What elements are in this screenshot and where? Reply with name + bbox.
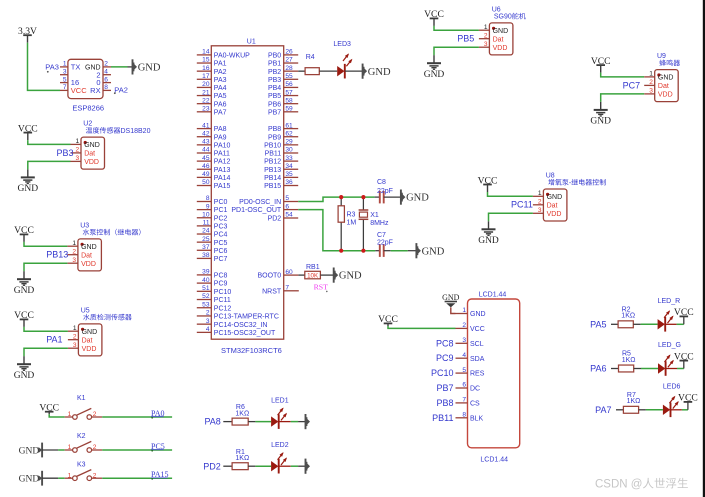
wire U3 pin 3 to GND (24, 263, 67, 271)
wire VCC to U3 pin 1 (24, 242, 67, 246)
net label PC7 (623, 80, 641, 90)
U1 left pins group 3 (PC0..PC7) (197, 195, 228, 263)
wire R2 to LED_R (633, 323, 657, 325)
svg-text:61: 61 (285, 122, 293, 129)
svg-text:SCL: SCL (470, 341, 484, 348)
svg-text:PB1: PB1 (268, 61, 281, 68)
wire PA5 to R2 (611, 323, 618, 325)
power flag VCC for U6 (424, 9, 444, 26)
svg-text:3: 3 (484, 41, 488, 48)
capacitor C8 22pF (375, 179, 401, 203)
svg-text:SG90: SG90 (494, 14, 512, 21)
net label PA2 at ESP8266 pin 8 (114, 86, 128, 95)
key K1 (65, 395, 103, 419)
svg-text:56: 56 (285, 81, 293, 88)
svg-text:LED1: LED1 (271, 397, 289, 404)
svg-text:59: 59 (285, 106, 293, 113)
net label PA3 at ESP8266 pin 1 (45, 62, 59, 72)
resistor R3 1M (338, 197, 356, 251)
svg-text:PB9: PB9 (268, 134, 281, 141)
svg-text:PA1: PA1 (214, 61, 227, 68)
svg-text:PC4: PC4 (214, 232, 228, 239)
svg-text:LED2: LED2 (271, 442, 289, 449)
wire LED6 to VCC (671, 402, 688, 410)
capacitor C7 22pF (375, 232, 416, 257)
svg-text:PB13: PB13 (264, 167, 281, 174)
svg-text:22pF: 22pF (377, 240, 393, 247)
ground at LED2 (306, 459, 311, 474)
svg-text:1: 1 (68, 411, 72, 418)
svg-text:3: 3 (72, 257, 76, 264)
wire VCC to K1 pin 1 (49, 414, 64, 417)
svg-text:11: 11 (203, 220, 210, 227)
svg-text:PC0: PC0 (214, 199, 228, 206)
svg-text:58: 58 (285, 97, 293, 104)
svg-text:PA3: PA3 (214, 77, 227, 84)
svg-text:PA12: PA12 (214, 159, 231, 166)
svg-text:51: 51 (202, 285, 210, 292)
svg-text:46: 46 (202, 163, 210, 170)
svg-text:U1: U1 (247, 39, 256, 46)
svg-text:PB8: PB8 (268, 126, 281, 133)
module U3 水泵控制（继电器） (67, 222, 140, 271)
U1 right pins group 1 (PB0..PB7) (268, 49, 298, 117)
resistor R4 (305, 54, 319, 75)
svg-text:Dat: Dat (81, 252, 92, 259)
svg-text:60: 60 (285, 269, 293, 276)
svg-text:7: 7 (462, 397, 466, 404)
svg-text:PB3: PB3 (268, 77, 281, 84)
wire VCC to LCD pin 2 (388, 326, 456, 328)
power flag VCC for U9 (591, 56, 611, 73)
svg-text:3: 3 (649, 88, 653, 95)
ground GND below U8 (478, 221, 499, 246)
ground GND at RB1 (334, 268, 362, 283)
net label RST at NRST (314, 283, 329, 293)
svg-text:PA5: PA5 (590, 319, 606, 329)
wire BOOT0 to RB1 (298, 274, 304, 276)
svg-text:PC13-TAMPER-RTC: PC13-TAMPER-RTC (214, 314, 279, 321)
svg-text:GND: GND (470, 311, 486, 318)
svg-text:PB12: PB12 (264, 159, 281, 166)
svg-text:16: 16 (202, 65, 210, 72)
module U9 蜂鸣器 (644, 53, 680, 102)
svg-text:PC11: PC11 (214, 297, 231, 304)
MCU U1 STM32F103RCT6 body (211, 39, 283, 355)
svg-text:GND: GND (138, 63, 161, 74)
svg-text:GND: GND (547, 194, 563, 201)
LED LED1 (271, 397, 289, 429)
svg-text:PA7: PA7 (595, 405, 611, 415)
svg-text:40: 40 (202, 277, 210, 284)
svg-text:VDD: VDD (658, 92, 673, 99)
svg-text:3: 3 (63, 69, 67, 76)
power flag VCC for U5 (14, 310, 34, 327)
svg-text:1: 1 (68, 444, 72, 451)
net label PC5 (151, 442, 165, 452)
U1 pin 7 NRST (262, 285, 299, 296)
ground GND at ESP8266 pin 2 (133, 59, 161, 74)
ground GND at C8 (401, 190, 429, 205)
svg-text:PB15: PB15 (264, 183, 281, 190)
svg-text:9: 9 (206, 203, 210, 210)
svg-text:5: 5 (285, 195, 289, 202)
svg-text:49: 49 (202, 171, 210, 178)
svg-text:PA10: PA10 (214, 142, 231, 149)
U1 left pins group 1 (PA0-WKUP..PA7) (197, 49, 250, 117)
svg-text:2: 2 (649, 79, 653, 86)
svg-text:K3: K3 (77, 462, 86, 469)
svg-text:-: - (569, 180, 572, 187)
svg-text:57: 57 (285, 89, 293, 96)
power flag VCC at LED_R (674, 307, 694, 318)
wire 3.3V to ESP8266 pin 7 (28, 43, 61, 91)
svg-text:PB2: PB2 (268, 69, 281, 76)
wire R6 to LED1 (248, 421, 271, 423)
svg-text:PC15-OSC32_OUT: PC15-OSC32_OUT (214, 330, 276, 337)
svg-text:VCC: VCC (470, 326, 485, 333)
svg-text:6: 6 (285, 203, 289, 210)
svg-text:PB13: PB13 (46, 250, 68, 260)
power flag VCC at LED6 (678, 393, 698, 404)
svg-text:1: 1 (76, 138, 80, 145)
crystal X1 8MHz (359, 197, 389, 251)
svg-text:1: 1 (63, 61, 67, 68)
svg-text:PC7: PC7 (623, 80, 641, 90)
svg-text:BOOT0: BOOT0 (257, 273, 281, 280)
wire VCC to U6 pin 1 (434, 26, 479, 30)
wire U8 pin 3 to GND (489, 213, 533, 221)
svg-text:Dat: Dat (547, 202, 558, 209)
svg-text:C7: C7 (377, 232, 386, 239)
svg-text:4: 4 (104, 69, 108, 76)
svg-text:30: 30 (285, 147, 293, 154)
svg-text:2: 2 (93, 444, 97, 451)
ground GND below U5 (14, 356, 35, 381)
svg-text:GND: GND (368, 67, 391, 78)
svg-text:2: 2 (76, 147, 80, 154)
svg-text:PB14: PB14 (264, 175, 281, 182)
wire U9 pin 3 to GND (601, 94, 645, 102)
svg-text:PA9: PA9 (214, 134, 227, 141)
svg-text:SDA: SDA (470, 356, 485, 363)
svg-text:K2: K2 (77, 433, 86, 440)
svg-text:41: 41 (202, 122, 210, 129)
svg-text:PC12: PC12 (214, 305, 232, 312)
ground GND below U6 (424, 55, 445, 80)
resistor R1 1K (232, 449, 249, 470)
net label PB3 (57, 148, 74, 158)
svg-text:X1: X1 (370, 212, 379, 219)
svg-text:LED6: LED6 (663, 383, 681, 390)
svg-text:PA6: PA6 (214, 101, 227, 108)
svg-text:PA6: PA6 (590, 364, 606, 374)
power flag VCC for U2 (18, 123, 38, 140)
ground GND at LCD pin 1 (442, 293, 460, 307)
svg-text:GND: GND (658, 75, 674, 82)
watermark CSDN (595, 478, 688, 491)
module U6 SG90舵机 (479, 6, 526, 55)
svg-text:RB1: RB1 (306, 264, 320, 271)
svg-text:VDD: VDD (547, 211, 562, 218)
wire LED_R to VCC (665, 317, 684, 325)
resistor RB1 10K (305, 264, 321, 280)
wire U6 pin 3 to GND (434, 47, 479, 55)
svg-text:GND: GND (406, 193, 429, 204)
svg-text:PD1-OSC_OUT: PD1-OSC_OUT (231, 207, 282, 214)
net label PB7 at LCD pin 6 (436, 383, 453, 393)
svg-text:52: 52 (202, 293, 210, 300)
wire VCC to U9 pin 1 (601, 73, 645, 77)
svg-text:PC10: PC10 (214, 289, 232, 296)
svg-text:GND: GND (84, 142, 100, 149)
svg-text:PA14: PA14 (214, 175, 231, 182)
module U2 温度传感器DS18B20 (71, 121, 151, 170)
module U5 水质检测传感器 (68, 307, 132, 356)
svg-text:PC11: PC11 (511, 200, 533, 210)
ground GND below U3 (14, 271, 35, 296)
wire PD0-OSC_IN to crystal top rail (298, 197, 374, 201)
key K2 (65, 433, 103, 452)
svg-text:C8: C8 (377, 179, 386, 186)
power flag VCC at LED_G (674, 351, 694, 362)
svg-text:PA4: PA4 (214, 85, 227, 92)
net label PA7 (595, 405, 611, 415)
svg-text:CSDN @: CSDN @ (595, 479, 642, 491)
svg-text:PC8: PC8 (214, 273, 228, 280)
svg-text:Dat: Dat (82, 337, 93, 344)
ground GND below U9 (590, 102, 611, 127)
svg-text:PA3: PA3 (45, 62, 59, 71)
wire RB1 to GND (320, 274, 333, 276)
resistor R6 1K (232, 404, 249, 425)
svg-text:PB10: PB10 (264, 142, 281, 149)
svg-text:PB7: PB7 (268, 109, 281, 116)
svg-text:1KΩ: 1KΩ (627, 398, 641, 405)
svg-text:Dat: Dat (84, 151, 95, 158)
svg-text:33: 33 (285, 155, 293, 162)
power flag VCC for U3 (14, 225, 34, 242)
U1 right pins PD0-OSC_IN / PD1-OSC_OUT / PD2 (231, 195, 298, 222)
svg-text:GND: GND (590, 117, 611, 127)
wire GND to K2 pin 1 (42, 449, 65, 451)
resistor R5 1K (619, 351, 636, 372)
wire PA8 to R6 (223, 421, 232, 423)
svg-text:1KΩ: 1KΩ (235, 455, 249, 462)
svg-text:PC8: PC8 (436, 338, 454, 348)
svg-text:PA7: PA7 (214, 109, 227, 116)
svg-text:R3: R3 (347, 212, 356, 219)
svg-text:PD2: PD2 (268, 216, 282, 223)
svg-text:PA0-WKUP: PA0-WKUP (214, 53, 250, 60)
wire VCC to U2 pin 1 (28, 140, 71, 144)
svg-text:1: 1 (462, 307, 466, 314)
svg-text:3: 3 (462, 337, 466, 344)
svg-text:8: 8 (206, 195, 210, 202)
LED LED_R (658, 298, 681, 332)
svg-text:45: 45 (202, 155, 210, 162)
svg-text:38: 38 (202, 252, 210, 259)
svg-text:PC10: PC10 (431, 368, 454, 378)
svg-text:50: 50 (202, 179, 210, 186)
net label PB11 at LCD pin 8 (432, 413, 453, 423)
svg-text:2: 2 (104, 61, 108, 68)
power flag VCC at LCD pin 2 (378, 314, 398, 326)
net label PD2 (203, 461, 221, 471)
wire LED_G to VCC (666, 361, 684, 369)
ground GND below U2 (18, 169, 39, 194)
svg-text:PB5: PB5 (457, 34, 474, 44)
svg-text:GND: GND (422, 246, 445, 257)
U1 left pins group 2 (PA8..PA15) (197, 122, 231, 190)
svg-text:STM32F103RCT6: STM32F103RCT6 (221, 346, 282, 355)
svg-text:35: 35 (285, 171, 293, 178)
key K3 (65, 462, 103, 481)
svg-text:PB4: PB4 (268, 85, 281, 92)
svg-text:26: 26 (285, 49, 293, 56)
resistor R7 1K (623, 392, 640, 413)
net label PC9 at LCD pin 4 (436, 353, 454, 363)
sheet right border (703, 0, 705, 497)
svg-text:PB7: PB7 (436, 383, 453, 393)
svg-text:U5: U5 (81, 307, 90, 314)
wire K1 pin 2 to PA0 (102, 416, 172, 418)
U1 left pins group 4 (PC8..PC15-OSC32_OUT) (197, 269, 279, 337)
net label PA1 (46, 335, 62, 345)
wire PD2 to R1 (223, 465, 232, 467)
LED LED6 (663, 383, 681, 417)
LED3 (333, 41, 352, 79)
module U8 增氧泵-继电器控制 (533, 172, 606, 221)
svg-text:8MHz: 8MHz (370, 220, 389, 227)
svg-text:PA13: PA13 (214, 167, 231, 174)
svg-text:2: 2 (206, 310, 210, 317)
svg-text:1M: 1M (347, 219, 357, 226)
ground GND at C7 (416, 243, 444, 258)
svg-text:GND: GND (19, 475, 40, 485)
svg-text:PC3: PC3 (214, 223, 228, 230)
svg-text:RX: RX (90, 86, 100, 95)
svg-text:PC6: PC6 (214, 248, 228, 255)
svg-text:VDD: VDD (493, 45, 508, 52)
svg-text:R4: R4 (306, 54, 315, 61)
svg-text:2: 2 (93, 472, 97, 479)
svg-text:VDD: VDD (81, 261, 96, 268)
svg-text:PB5: PB5 (268, 93, 281, 100)
svg-text:PC5: PC5 (214, 240, 228, 247)
svg-text:LCD1.44: LCD1.44 (480, 457, 508, 464)
svg-text:PA1: PA1 (46, 335, 62, 345)
svg-text:PC2: PC2 (214, 215, 228, 222)
svg-text:43: 43 (202, 139, 210, 146)
svg-text:24: 24 (202, 228, 210, 235)
svg-text:5: 5 (462, 367, 466, 374)
svg-text:2: 2 (484, 33, 488, 40)
wire ESP8266 pin 2 to GND (111, 66, 133, 68)
svg-text:22pF: 22pF (377, 188, 393, 195)
ground GND at K2 (19, 443, 43, 458)
svg-text:GND: GND (81, 244, 97, 251)
svg-text:BLK: BLK (470, 415, 484, 422)
net label PC8 at LCD pin 3 (436, 338, 454, 348)
net label PC10 at LCD pin 5 (431, 368, 454, 378)
net label PB8 at LCD pin 7 (436, 398, 453, 408)
ground GND at K3 (19, 471, 43, 486)
svg-text:U6: U6 (492, 6, 501, 13)
svg-text:21: 21 (202, 89, 210, 96)
svg-text:29: 29 (285, 139, 293, 146)
LED LED2 (271, 442, 289, 474)
svg-text:8: 8 (104, 84, 108, 91)
wire VCC to U8 pin 1 (488, 192, 533, 196)
power flag VCC for U8 (478, 175, 498, 192)
svg-text:3: 3 (76, 155, 80, 162)
svg-text:PA8: PA8 (204, 417, 220, 427)
U1 pin 60 BOOT0 (257, 269, 298, 280)
wire PD1-OSC_OUT to crystal bottom rail (298, 210, 375, 251)
wire R5 to LED_G (634, 368, 658, 370)
svg-text:PB11: PB11 (432, 413, 453, 423)
svg-text:PB3: PB3 (57, 148, 74, 158)
svg-text:PD2: PD2 (203, 461, 221, 471)
svg-text:2: 2 (462, 322, 466, 329)
wire PA7 to R7 (616, 409, 623, 411)
svg-text:62: 62 (285, 130, 293, 137)
svg-text:U9: U9 (657, 53, 666, 60)
svg-text:6: 6 (104, 76, 108, 83)
svg-text:PC9: PC9 (436, 353, 454, 363)
svg-text:15: 15 (202, 57, 210, 64)
svg-text:54: 54 (285, 212, 293, 219)
wire GND to K3 pin 1 (42, 477, 65, 479)
wire PB2 to R4 (298, 70, 305, 72)
svg-text:K1: K1 (77, 395, 86, 402)
svg-text:1KΩ: 1KΩ (235, 410, 249, 417)
svg-text:55: 55 (285, 73, 293, 80)
svg-text:27: 27 (285, 57, 293, 64)
wire U2 pin 3 to GND (28, 161, 71, 169)
svg-text:TX: TX (71, 63, 81, 72)
svg-text:37: 37 (202, 244, 210, 251)
svg-text:1KΩ: 1KΩ (622, 357, 636, 364)
svg-text:39: 39 (202, 269, 210, 276)
svg-text:GND: GND (424, 70, 445, 80)
svg-text:ESP8266: ESP8266 (72, 103, 104, 112)
net label PB5 (457, 34, 474, 44)
svg-text:PC1: PC1 (214, 207, 228, 214)
svg-text:53: 53 (202, 301, 210, 308)
net label PA5 (590, 319, 606, 329)
svg-text:CS: CS (470, 401, 480, 408)
svg-text:1: 1 (484, 24, 488, 31)
svg-text:GND: GND (18, 184, 39, 194)
svg-text:GND: GND (19, 446, 40, 456)
svg-text:LED_G: LED_G (658, 342, 681, 349)
svg-text:17: 17 (202, 73, 210, 80)
wire K2 pin 2 to PC5 (102, 449, 172, 451)
svg-text:PB8: PB8 (436, 398, 453, 408)
svg-text:20: 20 (202, 81, 210, 88)
svg-text:GND: GND (14, 371, 35, 381)
wire PA6 to R5 (611, 368, 619, 370)
resistor R2 1K (618, 307, 635, 328)
svg-text:2: 2 (538, 199, 542, 206)
U1 right pins group 2 (PB8..PB15) (264, 122, 298, 190)
svg-text:1: 1 (72, 240, 76, 247)
svg-text:1: 1 (649, 71, 653, 78)
svg-text:2: 2 (93, 411, 97, 418)
net label PA6 (590, 364, 606, 374)
